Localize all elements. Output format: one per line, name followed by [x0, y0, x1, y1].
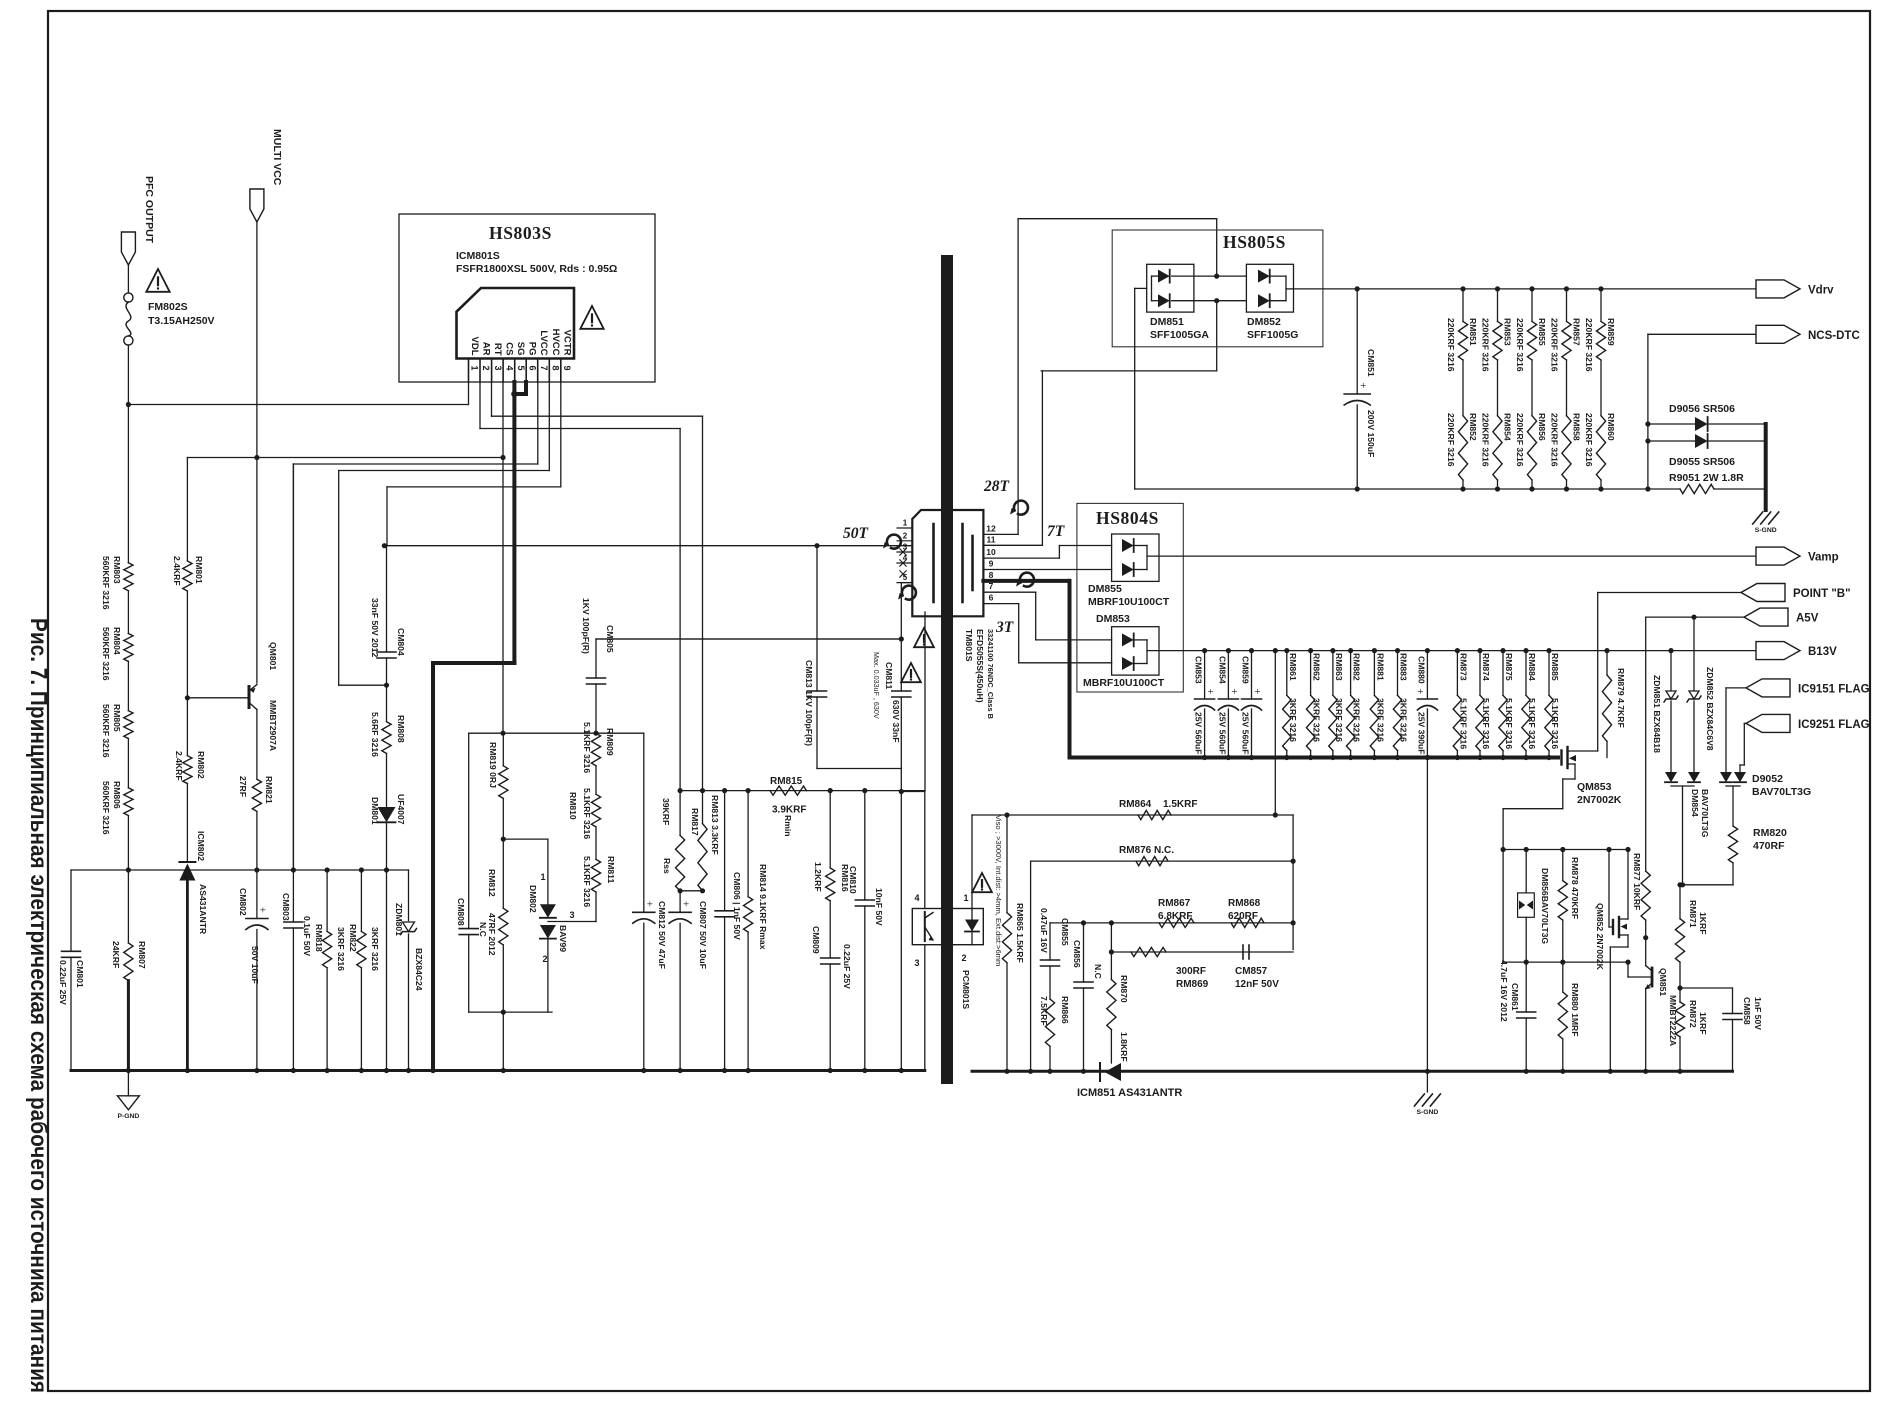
resistor RM860 220KRF — [1600, 360, 1602, 416]
svg-text:5.1KRF 3216: 5.1KRF 3216 — [1550, 698, 1560, 749]
ground S-GND — [1753, 512, 1763, 524]
svg-text:1: 1 — [540, 872, 545, 882]
svg-text:5.1KRF 3216: 5.1KRF 3216 — [1527, 698, 1537, 749]
wire — [186, 784, 188, 862]
wire — [186, 591, 188, 698]
svg-text:+: + — [1254, 686, 1260, 698]
wire between diode pairs — [1172, 275, 1247, 277]
svg-text:BAV70LT3G: BAV70LT3G — [1752, 786, 1811, 798]
resistor RM807 24KRF — [127, 870, 129, 943]
svg-text:0.1uF 50V: 0.1uF 50V — [302, 916, 312, 956]
wire — [1680, 884, 1733, 886]
svg-text:2: 2 — [961, 953, 966, 963]
wire Rmin node — [680, 790, 925, 792]
resistor RM852 220KRF — [1462, 360, 1464, 416]
resistor RM866 7.5KRF — [1045, 999, 1054, 1046]
svg-text:CM809: CM809 — [811, 926, 821, 954]
connector IC9151 FLAG — [1746, 679, 1790, 697]
svg-text:T3.15AH250V: T3.15AH250V — [148, 315, 215, 327]
svg-text:RM860: RM860 — [1606, 413, 1616, 441]
svg-text:470RF: 470RF — [1753, 840, 1785, 852]
wire S-GND drop — [1425, 755, 1430, 760]
capacitor CM851 200V 150uF — [1355, 286, 1360, 291]
svg-text:QM801: QM801 — [268, 642, 278, 670]
zener ZDM852 BZX84C6V8 — [1693, 617, 1695, 690]
wire — [680, 890, 702, 892]
svg-text:33241100 76NDC_Class B: 33241100 76NDC_Class B — [986, 629, 995, 719]
svg-text:RM851: RM851 — [1468, 318, 1478, 346]
svg-text:Rmin: Rmin — [783, 815, 793, 836]
svg-text:RM874: RM874 — [1481, 653, 1491, 681]
svg-text:560KRF 3216: 560KRF 3216 — [101, 627, 111, 681]
svg-text:ZDM801: ZDM801 — [394, 903, 404, 936]
svg-text:CM808: CM808 — [456, 898, 466, 926]
svg-text:MBRF10U100CT: MBRF10U100CT — [1088, 596, 1170, 608]
svg-text:CM856: CM856 — [1072, 940, 1082, 968]
fuse FM802S — [124, 293, 133, 302]
svg-text:CM802: CM802 — [238, 888, 248, 916]
svg-text:POINT "B": POINT "B" — [1793, 588, 1851, 600]
resistor RM875 5.1KRF 3216 — [1500, 648, 1505, 653]
diode DM856 BAV70LT3G — [1525, 850, 1527, 893]
svg-text:1: 1 — [470, 365, 480, 370]
resistor RM813 3.3KRF — [702, 791, 704, 824]
resistor RM858 220KRF — [1566, 360, 1568, 416]
wire pin5 SG thick — [512, 382, 516, 663]
svg-text:IC9151 FLAG: IC9151 FLAG — [1798, 683, 1870, 695]
svg-text:2N7002K: 2N7002K — [1577, 794, 1622, 806]
svg-text:3.9KRF: 3.9KRF — [772, 805, 806, 816]
svg-text:CM813 1KV 100pF(R): CM813 1KV 100pF(R) — [804, 660, 814, 746]
wire primary mid bus — [71, 869, 409, 871]
svg-text:RM802: RM802 — [196, 751, 206, 779]
resistor RM810 5.1KRF — [591, 794, 600, 827]
svg-text:RM882: RM882 — [1352, 653, 1362, 681]
wire secondary bottom bus — [972, 1070, 1733, 1073]
wire pin10 to DM855 — [983, 557, 1059, 559]
wire — [127, 265, 129, 293]
svg-text:ZDM851 BZX84B18: ZDM851 BZX84B18 — [1652, 675, 1662, 753]
svg-text:25V 560uF: 25V 560uF — [1194, 712, 1204, 755]
optocoupler PCM801S — [912, 909, 983, 945]
wire pin9 to DM855 — [983, 569, 1111, 571]
resistor RM853 220KRF — [1495, 286, 1500, 291]
svg-text:DM802: DM802 — [528, 885, 538, 913]
svg-text:300RF: 300RF — [1176, 966, 1206, 977]
svg-text:DM856BAV70LT3G: DM856BAV70LT3G — [1540, 868, 1550, 944]
resistor RM867 6.8KRF — [1159, 918, 1194, 927]
phase dot spiral — [902, 586, 916, 600]
svg-text:Vdrv: Vdrv — [1808, 284, 1834, 296]
svg-text:RM866: RM866 — [1060, 996, 1070, 1024]
capacitor CM853 25V 560uF — [1202, 648, 1207, 653]
svg-text:HS803S: HS803S — [489, 223, 552, 243]
svg-text:5.6RF 3216: 5.6RF 3216 — [370, 712, 380, 757]
wire RM864 feed — [1273, 648, 1278, 653]
shunt regulator ICM851 AS431ANTR — [1099, 1063, 1101, 1081]
svg-text:ICM802: ICM802 — [196, 831, 206, 861]
wire Vamp rail — [1147, 555, 1755, 557]
svg-text:VCTR: VCTR — [561, 330, 572, 356]
svg-text:CM858: CM858 — [1742, 997, 1752, 1025]
wire — [127, 661, 129, 710]
winding bars — [932, 524, 935, 602]
connector Vamp — [1756, 547, 1800, 565]
svg-text:RM877 10KRF: RM877 10KRF — [1632, 853, 1642, 910]
svg-text:SG: SG — [515, 342, 526, 356]
svg-text:Viso ; >3000V, Int.dist: >4mm,: Viso ; >3000V, Int.dist: >4mm, Ext.dist:… — [994, 815, 1003, 966]
svg-text:220KRF 3216: 220KRF 3216 — [1515, 413, 1525, 467]
shunt regulator ICM802 AS431ANTR — [179, 861, 195, 863]
wire MULTI VCC — [256, 222, 258, 683]
svg-text:RM801: RM801 — [194, 556, 204, 584]
svg-text:25V 390uF: 25V 390uF — [1416, 712, 1426, 755]
resistor RM817 39KRF Rss — [679, 791, 681, 836]
transistor QM852 2N7002K — [1608, 850, 1610, 928]
capacitor CM813 1KV 100pF — [816, 546, 818, 691]
wire — [127, 591, 129, 634]
capacitor CM854 25V 560uF — [1226, 648, 1231, 653]
svg-text:R9051 2W 1.8R: R9051 2W 1.8R — [1669, 472, 1744, 484]
IC ICM801S body — [457, 288, 575, 359]
phase dot spiral — [1014, 501, 1028, 515]
resistor RM802 — [186, 698, 188, 756]
svg-text:4: 4 — [914, 893, 919, 903]
svg-text:+: + — [1360, 380, 1366, 392]
svg-text:DM852: DM852 — [1247, 316, 1281, 328]
capacitor CM809 0.22uF 25V — [829, 901, 831, 958]
svg-text:27RF: 27RF — [238, 776, 248, 797]
svg-text:CM855: CM855 — [1060, 918, 1070, 946]
svg-text:RM855: RM855 — [1537, 318, 1547, 346]
svg-text:IC9251 FLAG: IC9251 FLAG — [1798, 719, 1870, 731]
zener ZDM851 BZX84B18 — [1668, 648, 1673, 653]
wire pin8 HVCC — [548, 382, 550, 471]
wire gate bias net — [1503, 849, 1628, 851]
wire opto pin4 — [924, 792, 926, 909]
svg-text:Vamp: Vamp — [1808, 552, 1839, 564]
block HS804S box — [1077, 503, 1183, 692]
svg-text:P-GND: P-GND — [117, 1113, 139, 1120]
svg-text:CM812 50V 47uF: CM812 50V 47uF — [657, 901, 667, 969]
wire primary bottom bus — [71, 1069, 925, 1072]
svg-text:MULTI VCC: MULTI VCC — [271, 129, 283, 186]
ground S-GND — [1414, 1094, 1424, 1106]
transformer left pins — [897, 527, 912, 529]
diode DM851 SFF1005GA — [1147, 264, 1194, 312]
wire divider right leg — [1275, 814, 1293, 816]
svg-text:5: 5 — [516, 365, 526, 370]
warning symbol — [580, 306, 603, 329]
svg-text:B13V: B13V — [1808, 646, 1837, 658]
resistor RM856 220KRF — [1531, 360, 1533, 416]
svg-text:ZDM852 BZX84C6V8: ZDM852 BZX84C6V8 — [1705, 667, 1715, 751]
connector POINT B — [1741, 584, 1785, 602]
resistor RM862 3KRF 3216 — [1308, 648, 1313, 653]
svg-text:28T: 28T — [983, 478, 1010, 495]
svg-text:7.5KRF: 7.5KRF — [1039, 996, 1049, 1026]
svg-text:+: + — [647, 898, 653, 910]
svg-text:CM806 | 1nF 50V: CM806 | 1nF 50V — [732, 872, 742, 940]
capacitor CM856 N.C — [1083, 923, 1085, 982]
svg-text:RM819 0RJ: RM819 0RJ — [488, 742, 498, 788]
zener ZDM801 BZX84C24 — [408, 870, 410, 921]
svg-text:N.C: N.C — [478, 922, 488, 937]
svg-text:RM853: RM853 — [1503, 318, 1513, 346]
svg-text:CM810: CM810 — [848, 866, 858, 894]
resistor RM815 3.9KRF — [770, 786, 807, 795]
wire — [127, 345, 129, 563]
svg-text:220KRF 3216: 220KRF 3216 — [1515, 318, 1525, 372]
svg-text:NCS-DTC: NCS-DTC — [1808, 330, 1860, 342]
capacitor CM810 10nF 50V — [864, 791, 866, 900]
resistor RM805 — [124, 711, 133, 739]
svg-text:RM878 470KRF: RM878 470KRF — [1570, 857, 1580, 919]
svg-text:RM859: RM859 — [1606, 318, 1616, 346]
svg-text:QM851: QM851 — [1658, 968, 1668, 996]
wire opto pin1 — [971, 815, 973, 909]
svg-text:ICM851 AS431ANTR: ICM851 AS431ANTR — [1077, 1087, 1182, 1099]
svg-text:RM865 1.5KRF: RM865 1.5KRF — [1015, 903, 1025, 963]
svg-text:RM879 4.7KRF: RM879 4.7KRF — [1616, 668, 1626, 728]
svg-text:Rss: Rss — [662, 858, 672, 874]
capacitor CM861 4.7uF 16V — [1525, 962, 1527, 1012]
svg-text:50T: 50T — [843, 525, 869, 542]
wire Vdrv rail — [1294, 288, 1756, 290]
svg-text:3KRF 3216: 3KRF 3216 — [1352, 698, 1362, 742]
svg-text:RM811: RM811 — [606, 856, 616, 883]
svg-text:1KRF: 1KRF — [1698, 912, 1708, 934]
svg-text:CM803: CM803 — [281, 893, 291, 921]
transformer TM801S core bar — [941, 255, 953, 1084]
diode DM854 BAV70LT3G — [1665, 772, 1677, 782]
svg-text:RM858: RM858 — [1572, 413, 1582, 441]
svg-text:CM859: CM859 — [1241, 656, 1251, 684]
svg-text:1.8KRF: 1.8KRF — [1119, 1032, 1129, 1062]
svg-text:220KRF 3216: 220KRF 3216 — [1481, 413, 1491, 467]
wire node Rss — [469, 732, 644, 734]
svg-text:CS: CS — [504, 342, 515, 355]
svg-text:2: 2 — [903, 531, 908, 540]
capacitor CM858 1nF 50V — [1680, 987, 1733, 989]
svg-text:BZX84C24: BZX84C24 — [414, 948, 424, 991]
svg-text:RM869: RM869 — [1176, 979, 1209, 990]
svg-text:RM885: RM885 — [1550, 653, 1560, 681]
svg-text:DM854: DM854 — [1690, 789, 1700, 817]
svg-text:RM856: RM856 — [1537, 413, 1547, 441]
svg-text:8: 8 — [551, 365, 561, 370]
svg-text:220KRF 3216: 220KRF 3216 — [1446, 318, 1456, 372]
svg-text:39KRF: 39KRF — [661, 798, 671, 825]
diode D9056 SR506 — [1648, 423, 1695, 425]
resistor RM878 470KRF — [1562, 850, 1564, 881]
svg-text:Рис. 7. Принципиальная электри: Рис. 7. Принципиальная электрическая схе… — [26, 618, 52, 1393]
svg-text:RM867: RM867 — [1158, 898, 1191, 909]
resistor RM803 — [124, 563, 133, 591]
svg-text:RM821: RM821 — [264, 776, 274, 804]
svg-text:220KRF 3216: 220KRF 3216 — [1584, 413, 1594, 467]
svg-text:3: 3 — [493, 365, 503, 370]
svg-text:+: + — [1207, 686, 1213, 698]
warning symbol — [972, 873, 992, 892]
capacitor CM855 0.47uF 16V — [1049, 923, 1051, 960]
transistor QM851 MMBT2222A — [1651, 968, 1654, 986]
diode DM802 BAV99 — [503, 838, 548, 840]
resistor RM871 1KRF — [1679, 885, 1681, 919]
svg-text:5.1KRF 3216: 5.1KRF 3216 — [1504, 698, 1514, 749]
svg-text:630V 33nF: 630V 33nF — [891, 700, 901, 743]
svg-text:25V 560uF: 25V 560uF — [1241, 712, 1251, 755]
svg-text:5.1KRF 3216: 5.1KRF 3216 — [582, 788, 592, 839]
svg-text:RM813 3.3KRF: RM813 3.3KRF — [710, 795, 720, 855]
svg-text:RT: RT — [492, 343, 503, 356]
svg-text:RM822: RM822 — [348, 924, 358, 952]
svg-text:AS431ANTR: AS431ANTR — [198, 884, 208, 935]
wire pin6 PG thick — [524, 382, 528, 394]
svg-text:220KRF 3216: 220KRF 3216 — [1550, 413, 1560, 467]
svg-text:6: 6 — [527, 365, 537, 370]
svg-text:RM883: RM883 — [1399, 653, 1409, 681]
diode DM801 UF4007 — [386, 753, 388, 807]
svg-text:9: 9 — [562, 365, 572, 370]
svg-text:11: 11 — [987, 534, 996, 544]
wire — [127, 739, 129, 788]
resistor RM808 5.6RF — [386, 685, 388, 722]
resistor RM859 220KRF — [1598, 286, 1603, 291]
resistor RM870 1.8KRF — [1110, 923, 1112, 980]
svg-text:HVCC: HVCC — [550, 329, 561, 356]
svg-text:1: 1 — [903, 519, 908, 528]
resistor RM855 220KRF — [1529, 286, 1534, 291]
node VDL wire junction — [126, 402, 131, 407]
svg-text:MBRF10U100CT: MBRF10U100CT — [1083, 677, 1165, 689]
svg-text:9: 9 — [989, 558, 994, 568]
diode DM853 MBRF10U100CT — [1112, 627, 1159, 675]
svg-text:CM807 50V 10uF: CM807 50V 10uF — [698, 901, 708, 969]
svg-text:47RF 2012: 47RF 2012 — [487, 913, 497, 956]
wire S-GND bus thick — [1070, 756, 1559, 760]
diode DM855 MBRF10U100CT — [1112, 534, 1159, 581]
svg-text:RM875: RM875 — [1504, 653, 1514, 681]
capacitor CM802 — [256, 870, 258, 919]
svg-text:D9055 SR506: D9055 SR506 — [1669, 456, 1735, 468]
IC pin stubs — [468, 359, 470, 383]
svg-text:50V 10uF: 50V 10uF — [250, 946, 260, 984]
svg-text:220KRF 3216: 220KRF 3216 — [1584, 318, 1594, 372]
svg-text:RM804: RM804 — [112, 627, 122, 655]
connector Vdrv — [1756, 280, 1800, 298]
svg-text:CM880: CM880 — [1416, 656, 1426, 684]
ground P-GND — [127, 1071, 129, 1096]
svg-text:220KRF 3216: 220KRF 3216 — [1550, 318, 1560, 372]
svg-text:12nF 50V: 12nF 50V — [1235, 979, 1279, 990]
wire pin12 to HS805S — [983, 533, 1018, 535]
svg-text:RM806: RM806 — [112, 781, 122, 809]
resistor RM882 3KRF 3216 — [1348, 648, 1353, 653]
wire — [386, 870, 388, 1071]
wire feedback top — [972, 814, 1275, 816]
svg-text:RM861: RM861 — [1288, 653, 1298, 681]
svg-text:DM801: DM801 — [370, 797, 380, 825]
wire — [256, 811, 258, 870]
svg-text:RM881: RM881 — [1375, 653, 1385, 681]
svg-text:560KRF 3216: 560KRF 3216 — [101, 704, 111, 758]
resistor RM877 10KRF — [1645, 617, 1647, 871]
svg-text:RM884: RM884 — [1527, 653, 1537, 681]
svg-text:EFD5055S(450uH): EFD5055S(450uH) — [975, 629, 985, 703]
wire pin9 VCTR — [560, 382, 562, 487]
capacitor CM812 50V 47uF — [643, 733, 645, 912]
svg-text:220KRF 3216: 220KRF 3216 — [1446, 413, 1456, 467]
resistor RM809 5.1KRF — [591, 733, 600, 766]
svg-text:ICM801S: ICM801S — [456, 250, 500, 262]
svg-text:RM803: RM803 — [112, 556, 122, 584]
svg-text:5.1KRF 3216: 5.1KRF 3216 — [1458, 698, 1468, 749]
svg-text:AR: AR — [481, 342, 492, 356]
capacitor CM806 1nF 50V — [724, 791, 726, 911]
resistor RM885 5.1KRF 3216 — [1546, 648, 1551, 653]
connector PFC OUTPUT — [121, 232, 135, 265]
svg-text:RM814 9.1KRF Rmax: RM814 9.1KRF Rmax — [758, 864, 768, 950]
wire POINT B riser — [1597, 593, 1599, 752]
capacitor CM857 12nF 50V — [1242, 945, 1244, 959]
svg-text:SFF1005GA: SFF1005GA — [1150, 329, 1209, 341]
svg-text:6: 6 — [989, 593, 994, 603]
svg-text:S-GND: S-GND — [1755, 527, 1777, 534]
wire pin8 thick to S-GND bus — [983, 579, 1069, 583]
svg-text:1KV 100pF(R): 1KV 100pF(R) — [581, 598, 591, 654]
diode D9052 BAV70LT3G — [1725, 688, 1727, 772]
svg-text:Max. 0.033uF , 630V: Max. 0.033uF , 630V — [872, 652, 881, 719]
svg-text:RM876 N.C.: RM876 N.C. — [1119, 845, 1174, 856]
svg-text:200V 150uF: 200V 150uF — [1366, 410, 1376, 457]
wire pin2 AR — [479, 382, 481, 429]
resistor RM818 3KRF — [326, 870, 328, 931]
svg-text:MMBT2907A: MMBT2907A — [268, 700, 278, 751]
wire comp leg — [1111, 951, 1293, 953]
svg-text:A5V: A5V — [1796, 613, 1819, 625]
wire — [469, 1011, 552, 1013]
resistor RM804 — [124, 634, 133, 662]
capacitor CM801 — [70, 870, 72, 951]
svg-text:CM854: CM854 — [1217, 656, 1227, 684]
capacitor CM804 33nF — [386, 546, 388, 652]
svg-text:CM857: CM857 — [1235, 966, 1268, 977]
svg-text:RM873: RM873 — [1458, 653, 1468, 681]
svg-text:RM880 1MRF: RM880 1MRF — [1570, 983, 1580, 1036]
diode DM852 SFF1005G — [1246, 264, 1293, 312]
resistor RM868 620RF — [1231, 918, 1264, 927]
resistor RM812 47RF — [499, 908, 508, 945]
svg-text:3KRF 3216: 3KRF 3216 — [336, 927, 346, 971]
svg-text:HS805S: HS805S — [1223, 232, 1286, 252]
svg-text:+: + — [260, 905, 266, 917]
svg-text:560KRF 3216: 560KRF 3216 — [101, 556, 111, 610]
svg-text:RM805: RM805 — [112, 704, 122, 732]
svg-text:RM815: RM815 — [770, 776, 803, 787]
capacitor CM808 N.C — [468, 733, 470, 928]
svg-text:RM870: RM870 — [1119, 975, 1129, 1003]
wire pin4 CS — [502, 382, 504, 733]
wire pin6 to DM853 — [983, 603, 1018, 605]
resistor RM873 5.1KRF 3216 — [1455, 648, 1460, 653]
svg-text:10: 10 — [986, 547, 996, 557]
block HS805S box — [1112, 230, 1323, 347]
svg-text:RM818: RM818 — [314, 924, 324, 952]
svg-text:RM820: RM820 — [1753, 827, 1787, 839]
resistor RM876 N.C. — [1031, 860, 1294, 862]
svg-text:10nF 50V: 10nF 50V — [874, 888, 884, 926]
